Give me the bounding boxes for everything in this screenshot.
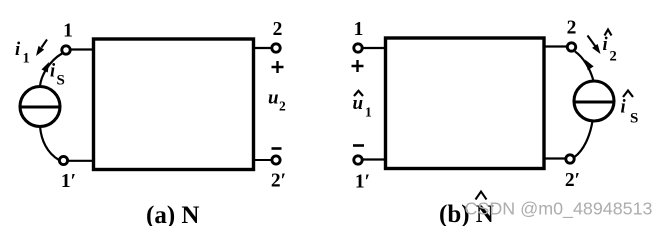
wire: node 1' to box left <box>68 160 94 162</box>
arrowhead iS-hat direction <box>582 58 594 71</box>
wire: box right to node 2 (b) <box>545 45 567 47</box>
svg-text:(a) N: (a) N <box>146 202 199 226</box>
svg-text:1: 1 <box>365 105 372 120</box>
svg-text:1′: 1′ <box>355 172 370 193</box>
svg-text:i: i <box>603 35 609 55</box>
current source iS-hat (b) <box>574 81 614 121</box>
wire: box right to node 2 <box>253 47 272 49</box>
svg-text:S: S <box>630 111 638 127</box>
terminal node 2 (b) <box>567 43 575 51</box>
arrowhead iS direction <box>41 60 52 72</box>
svg-text:i: i <box>15 40 21 60</box>
wire: node 2 to source top (curved, b) <box>575 52 594 82</box>
svg-text:2: 2 <box>279 99 286 114</box>
svg-text:i: i <box>621 98 627 118</box>
wire: node 1 to box left <box>71 48 94 50</box>
terminal node 1' (b) <box>354 156 362 164</box>
voltage label u1-hat <box>354 91 363 96</box>
current label iS-hat <box>623 91 633 98</box>
current source iS (a) <box>20 87 60 127</box>
svg-text:2′: 2′ <box>271 171 286 192</box>
current label i2-hat <box>605 30 612 36</box>
svg-text:CSDN @m0_48948513: CSDN @m0_48948513 <box>465 199 653 220</box>
wire: node 1' to box left (b) <box>363 158 385 160</box>
svg-text:2: 2 <box>273 19 283 40</box>
svg-text:1: 1 <box>63 21 73 42</box>
two-port network box N <box>94 39 254 170</box>
terminal node 1' <box>59 156 67 164</box>
terminal node 2' <box>272 156 280 164</box>
two-port network box N-hat <box>386 38 545 169</box>
svg-text:i: i <box>50 62 56 82</box>
current arrow i2-hat <box>588 36 596 47</box>
svg-text:2: 2 <box>610 49 617 65</box>
wire: box right to node 2' (b) <box>545 157 566 159</box>
polarity minus at port 1 (b) <box>353 144 364 147</box>
svg-text:S: S <box>57 73 65 89</box>
wire: node 1 to box left (b) <box>363 47 386 49</box>
wire: source top to node 1 (curved) <box>40 54 62 87</box>
wire: source bottom to node 2' (curved, b) <box>575 121 593 157</box>
terminal node 1 <box>62 46 70 54</box>
terminal node 1 (b) <box>354 44 362 52</box>
svg-text:1′: 1′ <box>61 171 76 192</box>
polarity plus at port 2 <box>272 61 284 73</box>
wire: box right to node 2' <box>253 159 272 161</box>
current arrow i1 <box>42 40 48 48</box>
svg-text:u: u <box>353 93 364 114</box>
svg-text:2: 2 <box>567 18 577 39</box>
polarity plus at port 1 (b) <box>352 60 364 72</box>
svg-text:1: 1 <box>354 19 364 40</box>
terminal node 2' (b) <box>566 155 574 163</box>
polarity minus at port 2 <box>272 147 282 150</box>
svg-text:1: 1 <box>23 51 30 67</box>
svg-text:2′: 2′ <box>565 170 580 191</box>
wire: source bottom to node 1' (curved) <box>40 126 59 160</box>
svg-text:u: u <box>268 88 279 109</box>
terminal node 2 <box>272 44 280 52</box>
